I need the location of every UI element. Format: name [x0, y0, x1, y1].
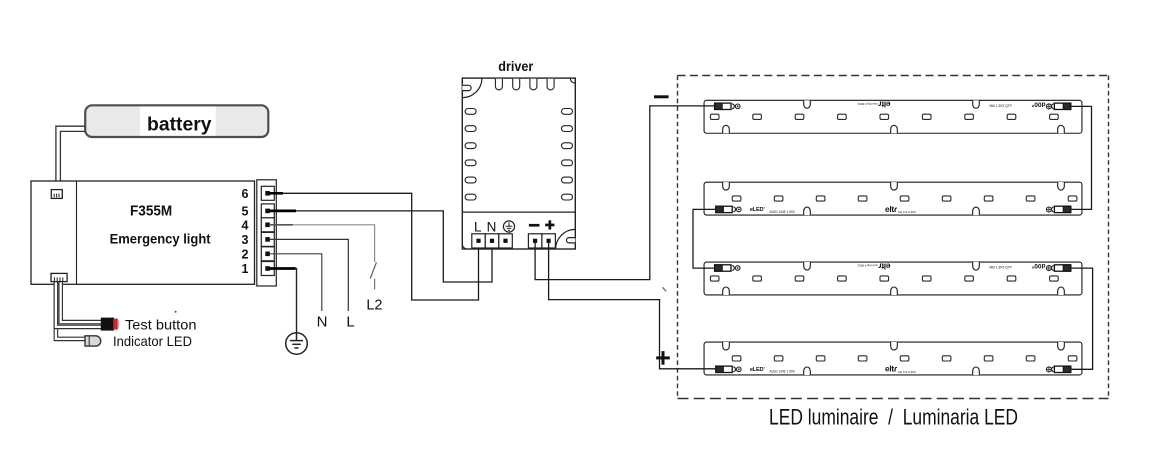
wire to indicator LED — [56, 281, 86, 339]
svg-text:3: 3 — [242, 233, 249, 247]
svg-text:5: 5 — [242, 204, 249, 218]
label minus — [654, 95, 669, 98]
stray mark — [663, 287, 667, 291]
LED strip 1 — [704, 100, 1082, 134]
svg-text:F355M: F355M — [130, 203, 172, 219]
driver plus label — [545, 220, 554, 229]
terminal strip — [257, 180, 277, 286]
test button — [101, 318, 119, 331]
driver corner arcs — [462, 244, 467, 249]
earth ground symbol — [286, 333, 308, 355]
svg-text:L: L — [346, 313, 354, 330]
driver input terminal block L N PE — [472, 234, 513, 248]
wire driver plus to strip 4 — [549, 243, 716, 369]
label plus — [656, 351, 670, 365]
driver top vent slots — [495, 79, 554, 90]
svg-text:driver: driver — [498, 59, 534, 74]
svg-text:2: 2 — [242, 247, 249, 261]
battery — [85, 105, 268, 137]
svg-text:Indicator LED: Indicator LED — [113, 333, 192, 349]
emergency light module F355M — [31, 181, 255, 284]
svg-text:N: N — [317, 313, 328, 330]
wire terminal 2 to N — [269, 254, 322, 311]
driver output terminal block - + — [528, 234, 555, 248]
driver body — [462, 78, 575, 249]
terminal numbers 6-1 — [242, 187, 249, 276]
wire terminal 5 to driver N — [269, 211, 492, 282]
wire to test button (upper lead) — [61, 281, 102, 323]
svg-text:L2: L2 — [366, 298, 382, 314]
wire strip3 right to strip4 right — [1071, 268, 1093, 369]
speck — [175, 311, 177, 313]
svg-text:1: 1 — [242, 262, 249, 276]
driver mount cutout bottom-right — [556, 229, 576, 249]
wire terminal 1 to earth — [269, 269, 297, 333]
driver side vent slots — [465, 109, 572, 201]
svg-text:battery: battery — [147, 114, 212, 135]
switch blade L2 — [370, 262, 376, 278]
accessory connector body — [51, 273, 67, 281]
wire strip1 right to strip2 right — [1071, 106, 1092, 209]
svg-text:L: L — [474, 219, 482, 234]
LED luminaire dashed enclosure — [678, 76, 1109, 399]
indicator LED — [85, 336, 101, 346]
svg-text:6: 6 — [242, 187, 249, 201]
LED strip 2 — [704, 182, 1082, 215]
LED strip 4 — [704, 342, 1082, 375]
battery connector — [51, 190, 62, 199]
wire terminal 4 to L2 switch — [269, 225, 375, 262]
svg-text:LED luminaire / Luminaria LE: LED luminaire / Luminaria LED — [769, 405, 1018, 430]
wire battery to module (pair) — [56, 126, 86, 189]
LED strip 3 — [704, 261, 1082, 295]
driver minus label — [529, 224, 540, 227]
driver mount cutout top-left — [462, 78, 482, 98]
svg-text:Emergency light: Emergency light — [110, 230, 211, 246]
wire to test button (lower lead) — [56, 281, 102, 327]
svg-text:N: N — [487, 220, 497, 235]
svg-text:Test button: Test button — [125, 317, 197, 333]
wire terminal 3 to L — [269, 239, 348, 311]
svg-text:4: 4 — [242, 218, 249, 232]
wire driver minus to strip 1 — [535, 106, 715, 280]
wire strip2 left to strip3 left — [693, 209, 717, 268]
driver earth screw symbol — [503, 221, 514, 232]
wire terminal 6 to driver L — [269, 193, 479, 300]
